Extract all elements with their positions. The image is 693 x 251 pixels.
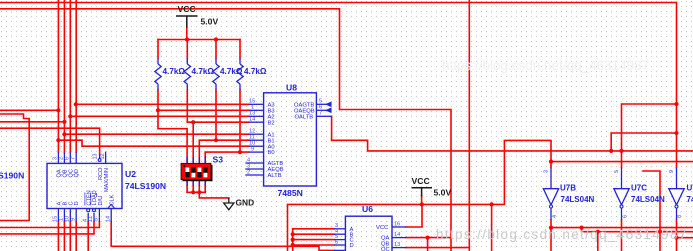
svg-text:4.7kΩ: 4.7kΩ (163, 67, 186, 76)
svg-text:9: 9 (251, 146, 254, 152)
svg-text:D: D (350, 243, 354, 249)
svg-text:2: 2 (247, 169, 250, 175)
svg-text:74LS190N: 74LS190N (125, 181, 166, 191)
svg-text:7485N: 7485N (278, 188, 303, 198)
svg-text:S190N: S190N (0, 171, 24, 181)
svg-text:6: 6 (335, 239, 338, 245)
svg-text:D: D (74, 201, 80, 205)
svg-text:74LS04N: 74LS04N (631, 195, 665, 204)
svg-text:VCC: VCC (376, 225, 388, 231)
svg-text:13: 13 (92, 154, 98, 160)
svg-text:U8: U8 (286, 83, 297, 93)
svg-text:S3: S3 (213, 155, 224, 165)
svg-text:VCC: VCC (178, 4, 196, 14)
svg-text:OALTB: OALTB (295, 114, 314, 120)
svg-text:ALTB: ALTB (268, 173, 282, 179)
svg-text:U2: U2 (125, 169, 136, 179)
svg-text:6: 6 (623, 215, 629, 218)
svg-text:5.0V: 5.0V (434, 188, 452, 198)
svg-text:4.7kΩ: 4.7kΩ (244, 67, 267, 76)
svg-text:U7D: U7D (687, 184, 693, 193)
svg-text:VCC: VCC (412, 176, 430, 186)
svg-text:CLK: CLK (109, 194, 115, 205)
svg-text:U7C: U7C (631, 184, 647, 193)
svg-text:74LS04N: 74LS04N (687, 195, 693, 204)
svg-text:13: 13 (394, 242, 400, 248)
svg-text:GND: GND (236, 198, 255, 208)
svg-text:4: 4 (552, 215, 558, 218)
svg-text:14: 14 (105, 216, 111, 222)
svg-text:U6: U6 (362, 204, 373, 214)
svg-text:14: 14 (394, 232, 400, 238)
svg-text:D/U: D/U (98, 196, 104, 206)
svg-text:https://blog.csdn.net/qq_46314: https://blog.csdn.net/qq_46314987 (436, 227, 688, 242)
svg-text:14: 14 (249, 117, 255, 123)
svg-text:https://blog.csdn.net/qq_46314: https://blog.csdn.net/qq_46314987 (442, 58, 649, 73)
svg-text:U7B: U7B (560, 184, 576, 193)
svg-text:5: 5 (94, 218, 100, 221)
svg-text:5.0V: 5.0V (201, 17, 219, 27)
svg-text:16: 16 (394, 221, 400, 227)
svg-text:4.7kΩ: 4.7kΩ (192, 67, 215, 76)
svg-text:QC: QC (381, 247, 390, 251)
svg-text:9: 9 (669, 170, 675, 173)
svg-text:5: 5 (614, 170, 620, 173)
svg-text:4.7kΩ: 4.7kΩ (220, 67, 243, 76)
svg-text:7: 7 (70, 157, 76, 160)
svg-text:3: 3 (544, 170, 550, 173)
svg-text:7: 7 (319, 111, 322, 117)
svg-text:B2: B2 (268, 120, 275, 126)
svg-text:12: 12 (100, 154, 106, 160)
svg-text:8: 8 (677, 215, 683, 218)
svg-text:B0: B0 (268, 150, 275, 156)
svg-text:9: 9 (70, 218, 76, 221)
svg-text:MAX/MIN: MAX/MIN (104, 168, 110, 192)
svg-text:QD: QD (74, 169, 80, 177)
svg-text:74LS04N: 74LS04N (561, 195, 595, 204)
